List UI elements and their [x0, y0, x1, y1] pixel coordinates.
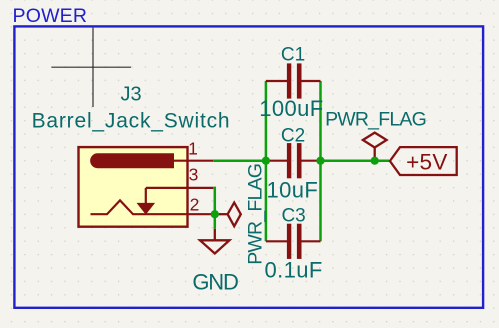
wire left rail — [265, 81, 268, 241]
svg-text:2: 2 — [190, 195, 200, 215]
power flag PWR_FLAG at +5V node — [363, 133, 387, 161]
svg-text:10uF: 10uF — [267, 177, 319, 202]
svg-text:3: 3 — [189, 165, 199, 185]
capacitor C1 — [266, 63, 321, 98]
junction power flag — [371, 157, 379, 165]
svg-text:1: 1 — [188, 139, 198, 159]
svg-text:C1: C1 — [281, 45, 305, 66]
junction right rail — [316, 157, 324, 165]
svg-text:100uF: 100uF — [259, 96, 323, 121]
connector J3 body — [79, 147, 188, 227]
svg-text:PWR_FLAG: PWR_FLAG — [245, 164, 267, 265]
J3 pin 1 — [174, 160, 213, 162]
svg-text:+5V: +5V — [406, 150, 448, 175]
junction left rail — [262, 157, 270, 165]
wire to +5V tag — [321, 159, 390, 162]
junction pin2 node — [211, 210, 219, 218]
power flag PWR_FLAG at pin2 node — [219, 203, 241, 227]
wire pin2 to gnd — [214, 214, 217, 229]
svg-text:C2: C2 — [281, 126, 305, 147]
svg-text:POWER: POWER — [13, 5, 88, 27]
J3 switch contact — [91, 200, 214, 214]
wire pin3 corner — [213, 188, 215, 214]
J3 switch arrow — [139, 188, 153, 213]
J3 barrel contact — [90, 153, 174, 168]
power symbol +5V tag — [390, 147, 457, 175]
svg-text:PWR_FLAG: PWR_FLAG — [325, 109, 426, 131]
svg-text:Barrel_Jack_Switch: Barrel_Jack_Switch — [32, 110, 231, 133]
ground symbol — [200, 229, 229, 254]
capacitor C3 — [266, 224, 321, 259]
svg-text:GND: GND — [192, 270, 238, 295]
svg-text:J3: J3 — [120, 84, 141, 106]
symbol anchor crosshair — [52, 28, 132, 107]
svg-text:0.1uF: 0.1uF — [264, 258, 322, 283]
J3 pin 3 — [146, 187, 214, 189]
svg-text:C3: C3 — [281, 206, 305, 227]
capacitor C2 — [266, 143, 321, 178]
wire pin1 to capacitor ladder — [213, 159, 266, 162]
wire right rail — [319, 81, 322, 241]
